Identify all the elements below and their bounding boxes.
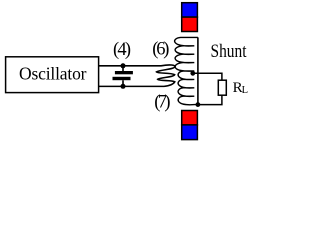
capacitor C bottom plate [113, 77, 131, 80]
capacitor C top plate [115, 71, 133, 74]
resistor RL body [218, 80, 226, 95]
wire: resistor RL bottom to bus bottom junction [198, 95, 222, 104]
svg-text:Shunt: Shunt [211, 42, 248, 62]
magnet bottom: blue pole [182, 125, 198, 140]
node: shunt tap dot [190, 71, 195, 76]
svg-text:(6): (6) [152, 40, 169, 60]
wire: right-side bus from coil top to bottom junction [197, 37, 199, 104]
svg-text:Oscillator: Oscillator [19, 64, 87, 84]
magnet top: blue pole [182, 3, 198, 17]
magnet top: red pole [182, 17, 198, 31]
wire: shunt tap to resistor RL top [193, 73, 222, 80]
node: capacitor bottom junction [121, 84, 126, 89]
node: capacitor top junction [121, 63, 126, 68]
svg-text:(7): (7) [154, 92, 170, 112]
magnet bottom: red pole [182, 111, 198, 125]
oscillator box [6, 57, 99, 93]
primary coil L1 with top and bottom wires to oscillator [99, 65, 175, 86]
secondary coil L2 [175, 37, 198, 104]
svg-text:(4): (4) [113, 40, 131, 60]
node: bottom junction dot [196, 102, 201, 107]
capacitor C stems [122, 66, 124, 87]
svg-text:L: L [242, 85, 248, 96]
